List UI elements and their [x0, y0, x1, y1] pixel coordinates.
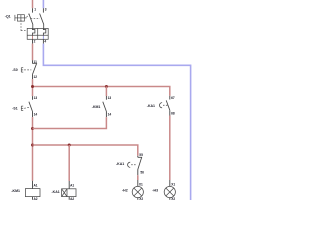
node junction line1 [31, 127, 34, 130]
lamp H2 pin X1 [137, 180, 139, 186]
svg-text:A2: A2 [70, 197, 74, 200]
svg-text:68: 68 [171, 111, 175, 115]
svg-text:-KM1: -KM1 [11, 189, 20, 193]
contact KA1 55-56 timer symbol [128, 162, 131, 167]
svg-text:3: 3 [45, 8, 47, 12]
breaker Q1 thermal element pole1 [33, 28, 35, 39]
svg-text:-S1: -S1 [12, 106, 18, 110]
lamp H2 [132, 186, 143, 197]
svg-text:X1: X1 [171, 182, 175, 186]
svg-text:-KA1: -KA1 [116, 162, 124, 166]
pushbutton S0 pin 11 [32, 60, 34, 63]
breaker Q1 thermal element pole2 [43, 28, 45, 39]
svg-text:4: 4 [44, 40, 46, 44]
svg-text:14: 14 [34, 113, 38, 117]
pushbutton S0 actuator link dashed [24, 69, 31, 71]
svg-text:A1: A1 [70, 184, 74, 188]
contact KA1 55-56 NC contact [138, 157, 142, 169]
node junction S0 out [31, 85, 34, 88]
coil KA1 pin A1 [68, 181, 70, 189]
wire S1 down trunk [32, 117, 34, 181]
breaker Q1 blade pole1 [29, 14, 33, 29]
node junction line2 [31, 144, 34, 147]
coil KM1 pin A1 [32, 181, 34, 189]
wire line2 to coils and lamp branch [33, 145, 138, 156]
wire KA1 55-56 to lamp H2 [137, 175, 139, 180]
pushbutton S1 actuator link dashed [24, 107, 29, 108]
pushbutton S1 pin 14 [32, 112, 34, 118]
wire KA1 coil branch [68, 145, 70, 181]
svg-text:-KA1: -KA1 [147, 104, 155, 108]
breaker Q1 pin 2 [32, 39, 34, 43]
breaker Q1 blade pole2 [40, 14, 44, 29]
wire KM1 seal return [33, 117, 107, 128]
coil KA1 pin A2 [68, 197, 70, 200]
contact KA1 55-56 pin 55 [137, 156, 139, 158]
coil KM1 pin A2 [32, 197, 34, 200]
pushbutton S1 NO contact [29, 102, 33, 112]
pushbutton S1 pin 13 [32, 96, 34, 100]
node junction KA1 coil branch [68, 144, 71, 147]
wire N from Q1 to right rail (blue) [43, 44, 190, 200]
pushbutton S0 pin 12 [32, 74, 34, 79]
coil KA1 (timed relay) [62, 189, 76, 197]
contact KA1 67-68 timer symbol [160, 103, 163, 108]
svg-text:A2: A2 [34, 197, 38, 200]
svg-text:13: 13 [34, 96, 38, 100]
contact KA1 67-68 pin 68 [169, 110, 171, 115]
breaker Q1 pin 4 [42, 39, 44, 43]
pushbutton S1 actuator E [21, 106, 23, 110]
contact KA1 55-56 pin 56 [137, 170, 139, 176]
lamp H2 pin X2 [137, 198, 139, 200]
svg-text:14: 14 [108, 113, 112, 117]
svg-text:13: 13 [108, 96, 112, 100]
breaker Q1 pin 3 [42, 8, 44, 12]
breaker Q1 mechanical link (dashed) [21, 14, 40, 30]
lamp H3 pin X1 [169, 180, 171, 186]
pushbutton S0 NC contact [33, 64, 37, 75]
contact KM1 NO contact [103, 102, 107, 112]
contact KM1 pin 13 [105, 87, 107, 97]
breaker Q1 actuator [15, 15, 27, 21]
contact KA1 67-68 pin 67 [169, 96, 171, 100]
wire S0 to rail node [32, 79, 34, 96]
breaker Q1 pin 1 [32, 8, 34, 12]
svg-text:-H2: -H2 [122, 188, 128, 192]
svg-text:2: 2 [34, 40, 36, 44]
wire tint in box pole1 [32, 36, 34, 39]
svg-text:X2: X2 [139, 197, 143, 200]
lamp H3 [164, 186, 175, 197]
wire N top feed blue [42, 0, 44, 8]
node junction KM1 branch [105, 85, 108, 88]
wire KA1 67-68 to lamp H3 [169, 116, 171, 181]
lamp H3 pin X2 [169, 198, 171, 200]
svg-text:-Q1: -Q1 [5, 15, 11, 19]
svg-text:56: 56 [140, 171, 144, 175]
contact KM1 pin 14 [105, 112, 107, 118]
svg-text:67: 67 [171, 96, 175, 100]
svg-text:12: 12 [34, 75, 38, 79]
svg-text:X2: X2 [171, 197, 175, 200]
svg-text:A1: A1 [34, 184, 38, 188]
pushbutton S0 actuator E [21, 68, 23, 72]
svg-text:-H3: -H3 [152, 188, 158, 192]
svg-text:1: 1 [34, 8, 36, 12]
svg-text:-S0: -S0 [12, 68, 18, 72]
contact KA1 67-68 NO contact [166, 100, 170, 110]
svg-text:55: 55 [139, 153, 143, 157]
breaker Q1 overload box [27, 28, 48, 39]
wire L top feed red [32, 0, 34, 8]
svg-text:-KA1: -KA1 [52, 190, 60, 194]
svg-text:X1: X1 [139, 182, 143, 186]
coil KM1 [25, 189, 40, 197]
wire tint in box pole2 [42, 36, 44, 39]
svg-text:-KM1: -KM1 [92, 105, 101, 109]
rail after S0 (red horizontal) [33, 87, 170, 96]
wire L1 from Q1 to S0 [32, 44, 34, 61]
